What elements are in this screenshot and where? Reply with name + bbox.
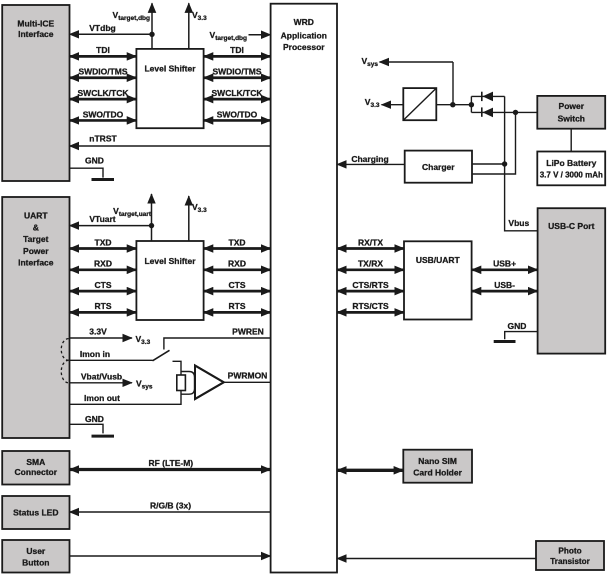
- svg-text:Interface: Interface: [18, 29, 54, 39]
- svg-text:GND: GND: [85, 414, 104, 424]
- svg-text:SWO/TDO: SWO/TDO: [217, 109, 258, 119]
- svg-text:Interface: Interface: [18, 258, 54, 268]
- svg-text:Imon out: Imon out: [84, 393, 120, 403]
- svg-text:TXD: TXD: [95, 237, 112, 247]
- svg-text:Power: Power: [559, 101, 585, 111]
- svg-text:LiPo Battery: LiPo Battery: [546, 158, 596, 168]
- svg-text:RXD: RXD: [228, 259, 246, 269]
- svg-text:Application: Application: [281, 31, 327, 41]
- svg-text:RTS: RTS: [229, 301, 246, 311]
- svg-text:Charging: Charging: [351, 154, 388, 164]
- svg-text:Photo: Photo: [558, 546, 581, 555]
- svg-text:UART: UART: [24, 211, 48, 221]
- svg-text:TX/RX: TX/RX: [358, 259, 383, 269]
- svg-text:nTRST: nTRST: [89, 134, 117, 144]
- svg-text:TXD: TXD: [229, 237, 246, 247]
- svg-text:Vbat/Vusb: Vbat/Vusb: [81, 371, 122, 381]
- svg-text:PWRMON: PWRMON: [228, 371, 268, 381]
- svg-text:Connector: Connector: [15, 467, 58, 477]
- svg-text:Target: Target: [23, 234, 49, 244]
- svg-text:TDI: TDI: [230, 45, 244, 55]
- svg-text:USB-C Port: USB-C Port: [548, 221, 594, 231]
- svg-text:GND: GND: [508, 321, 527, 331]
- svg-text:Power: Power: [23, 246, 49, 256]
- svg-text:USB+: USB+: [493, 259, 516, 269]
- svg-text:Level Shifter: Level Shifter: [144, 256, 196, 266]
- svg-text:USB/UART: USB/UART: [416, 255, 461, 265]
- svg-text:VTdbg: VTdbg: [89, 23, 115, 33]
- svg-text:CTS: CTS: [95, 280, 112, 290]
- svg-text:SWO/TDO: SWO/TDO: [83, 109, 124, 119]
- svg-text:SWCLK/TCK: SWCLK/TCK: [212, 88, 264, 98]
- svg-text:Imon in: Imon in: [80, 349, 110, 359]
- svg-text:Button: Button: [22, 557, 49, 567]
- svg-text:RTS/CTS: RTS/CTS: [352, 301, 389, 311]
- svg-text:SWDIO/TMS: SWDIO/TMS: [212, 67, 261, 77]
- svg-text:WRD: WRD: [294, 17, 314, 27]
- svg-text:R/G/B (3x): R/G/B (3x): [150, 500, 191, 510]
- svg-text:RF (LTE-M): RF (LTE-M): [148, 458, 193, 468]
- svg-text:3.3V: 3.3V: [89, 326, 107, 336]
- svg-text:Switch: Switch: [558, 113, 585, 123]
- svg-text:VTuart: VTuart: [89, 214, 115, 224]
- svg-text:RXD: RXD: [94, 259, 112, 269]
- svg-text:Nano SIM: Nano SIM: [418, 456, 457, 466]
- svg-text:Multi-ICE: Multi-ICE: [17, 18, 54, 28]
- svg-text:Processor: Processor: [283, 42, 325, 52]
- svg-text:GND: GND: [85, 156, 104, 166]
- svg-text:Vbus: Vbus: [508, 218, 529, 228]
- svg-text:CTS: CTS: [229, 280, 246, 290]
- svg-text:Card Holder: Card Holder: [413, 468, 462, 478]
- svg-text:Status LED: Status LED: [13, 507, 58, 517]
- svg-text:Transistor: Transistor: [550, 557, 590, 566]
- svg-text:TDI: TDI: [96, 45, 110, 55]
- svg-text:Level Shifter: Level Shifter: [144, 63, 196, 73]
- svg-text:SWDIO/TMS: SWDIO/TMS: [78, 67, 127, 77]
- svg-text:RX/TX: RX/TX: [358, 237, 383, 247]
- svg-text:&: &: [33, 222, 39, 232]
- svg-text:SWCLK/TCK: SWCLK/TCK: [78, 88, 130, 98]
- svg-text:RTS: RTS: [95, 301, 112, 311]
- svg-text:Charger: Charger: [422, 162, 455, 172]
- svg-text:3.7 V / 3000 mAh: 3.7 V / 3000 mAh: [540, 170, 603, 179]
- svg-text:SMA: SMA: [26, 457, 45, 467]
- svg-text:CTS/RTS: CTS/RTS: [352, 280, 389, 290]
- svg-text:USB-: USB-: [494, 280, 515, 290]
- svg-text:User: User: [26, 546, 46, 556]
- svg-text:PWREN: PWREN: [232, 326, 264, 336]
